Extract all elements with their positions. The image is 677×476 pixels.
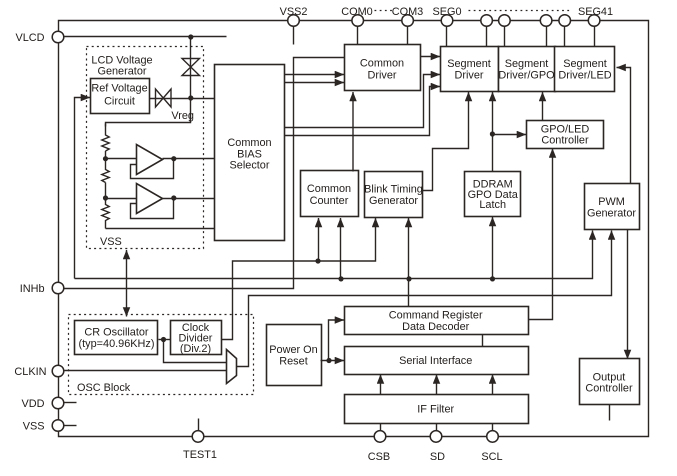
svg-text:Generator: Generator (587, 208, 636, 220)
junction VLCD/regulator (188, 34, 193, 39)
wire Output Controller stub (609, 405, 611, 421)
svg-text:Common: Common (227, 137, 271, 149)
svg-text:Driver: Driver (454, 69, 483, 81)
svg-text:SD: SD (430, 451, 445, 463)
pin CLKIN (52, 365, 64, 377)
LCD Voltage Generator dotted box (87, 47, 204, 249)
junction bus to Blink Timing (406, 276, 411, 281)
svg-text:Serial Interface: Serial Interface (399, 355, 472, 367)
leader dots COM0-COM3 (375, 10, 393, 12)
junction tap1 (103, 156, 108, 161)
junction Vreg node (188, 95, 193, 100)
junction bus to Common Counter (338, 276, 343, 281)
wire DDRAM latch up to Segment Driver (492, 92, 494, 172)
mux selector (227, 350, 237, 384)
svg-text:SCL: SCL (481, 451, 502, 463)
svg-text:OSC Block: OSC Block (77, 382, 131, 394)
block GPO/LED Controller (527, 121, 604, 149)
resistor R1 (102, 124, 109, 152)
resistor R3 (102, 183, 109, 229)
svg-text:IF Filter: IF Filter (417, 404, 454, 416)
svg-text:Reset: Reset (279, 355, 307, 367)
block Ref Voltage Circuit (91, 79, 150, 114)
block Clock Divider (171, 321, 222, 355)
wire ref voltage output (149, 98, 191, 100)
pin VLCD (52, 31, 64, 43)
wire Vreg to BIAS selector (191, 98, 215, 100)
pin SCL (487, 431, 499, 443)
svg-text:Counter: Counter (310, 195, 349, 207)
pin COM3 (402, 15, 414, 27)
svg-text:COM0: COM0 (341, 6, 372, 18)
junction POR branch (326, 358, 331, 363)
pin VSS (52, 420, 64, 432)
svg-text:Command Register: Command Register (389, 310, 483, 322)
wire CLKIN to mux (65, 370, 227, 372)
junction clock to Common Counter (315, 258, 320, 263)
leader dots SEG0-SEG41 (469, 10, 573, 12)
block Segment Driver (441, 47, 499, 92)
wire BIAS to Common Driver 2 (285, 82, 345, 84)
svg-text:TEST1: TEST1 (183, 449, 217, 461)
wire A1 feedback (131, 159, 174, 179)
svg-text:Circuit: Circuit (104, 96, 135, 108)
pin SEG (499, 15, 511, 27)
svg-text:SEG0: SEG0 (432, 6, 461, 18)
wire Blink Timing to Segment Driver (423, 92, 469, 191)
block DDRAM GPO Data Latch (465, 172, 521, 217)
block Power On Reset (267, 325, 322, 386)
wire VSS2 stub (293, 27, 295, 45)
block Common Counter (301, 171, 359, 217)
wire tap2 to A2 input (106, 198, 137, 200)
svg-text:Ref Voltage: Ref Voltage (91, 83, 147, 95)
wire A2 feedback (131, 199, 174, 219)
junction A1 output (171, 156, 176, 161)
wire INHb net (65, 58, 345, 289)
block CR Oscillator (75, 321, 158, 355)
junction bus to DDRAM latch (490, 276, 495, 281)
block Common Driver (345, 45, 421, 91)
svg-text:SEG41: SEG41 (578, 6, 613, 18)
wire PWM to Output Controller (627, 230, 629, 360)
pin COM0 (352, 15, 364, 27)
resistor R2 (102, 151, 109, 183)
svg-text:CR Oscillator: CR Oscillator (84, 327, 149, 339)
svg-text:COM3: COM3 (392, 6, 423, 18)
wire tap1 to A1 input (106, 158, 137, 160)
pin SEG (481, 15, 493, 27)
wire oscillator direct to mux (164, 340, 227, 363)
wire PWM to Segment Driver/LED (617, 68, 631, 184)
wire IF Filter to Serial Interface 1 (380, 375, 382, 395)
svg-text:Controller: Controller (585, 383, 633, 395)
svg-text:VSS: VSS (100, 236, 122, 248)
svg-text:VSS2: VSS2 (280, 6, 308, 18)
svg-text:Common: Common (360, 58, 404, 70)
block Command Register Data Decoder (345, 307, 529, 335)
svg-text:Driver: Driver (367, 69, 396, 81)
pin SEG (559, 15, 571, 27)
wire SEG stub 2 (486, 27, 488, 47)
op-amp A1 (137, 145, 163, 175)
svg-text:Segment: Segment (563, 58, 607, 70)
svg-text:Latch: Latch (479, 199, 506, 211)
wire VSS stub (64, 425, 77, 427)
wire SCL to IF Filter (492, 424, 494, 432)
valve V2 (horizontal bowtie) (156, 89, 172, 107)
wire regulator vertical upper (190, 37, 192, 99)
junction DDRAM/GPO branch (490, 131, 495, 136)
wire BIAS to Segment Driver 1 (285, 75, 441, 128)
svg-text:Driver/GPO: Driver/GPO (498, 69, 554, 81)
wire TEST1 stub (198, 419, 200, 431)
wire bus branch to DDRAM latch (492, 217, 494, 279)
wire IF Filter to Serial Interface 2 (436, 375, 438, 395)
block Blink Timing Generator (365, 172, 423, 218)
block IF Filter (345, 395, 529, 424)
wire clock branch to Common Counter (318, 218, 320, 261)
wire Command Register to GPO/LED Controller (528, 149, 553, 320)
pin VSS2 (288, 15, 300, 27)
outer frame (59, 21, 649, 437)
pin CSB (374, 431, 386, 443)
junction A2 output (171, 195, 176, 200)
wire BIAS to Common Driver 1 (285, 74, 345, 76)
svg-text:Blink Timing: Blink Timing (364, 184, 423, 196)
svg-text:VSS: VSS (23, 421, 45, 433)
wire bus branch to Common Counter (340, 218, 342, 279)
pin INHb (52, 282, 64, 294)
wire SEG41 stub (594, 27, 596, 47)
wire feedback into Ref Voltage Circuit (75, 98, 91, 279)
wire CR Oscillator to Clock Divider (159, 339, 171, 341)
pin SEG0 (441, 15, 453, 27)
wire IF Filter to Serial Interface 3 (492, 375, 494, 395)
pin SEG (540, 15, 552, 27)
junction tap2 (103, 195, 108, 200)
block Segment Driver/GPO (499, 47, 556, 92)
svg-text:Selector: Selector (230, 160, 270, 172)
wire VLCD rail (65, 36, 227, 38)
svg-text:(Div.2): (Div.2) (180, 343, 211, 355)
wire control bus (75, 231, 593, 279)
wire clock line from Clock Divider (222, 218, 376, 340)
svg-text:Common: Common (307, 183, 351, 195)
wire COM3 stub (407, 27, 409, 45)
wire BIAS to Segment Driver 2 (285, 87, 441, 136)
svg-text:Output: Output (593, 371, 626, 383)
svg-text:Power On: Power On (269, 344, 317, 356)
regulator valve V1 (vertical bowtie) (182, 59, 200, 76)
wire SD to IF Filter (436, 424, 438, 432)
block Serial Interface (345, 347, 529, 375)
block PWM Generator (585, 184, 640, 230)
wire branch to GPO/LED Controller (493, 134, 527, 136)
double arrow generator/OSC (126, 250, 128, 317)
wire SEG stub 3 (504, 27, 506, 47)
svg-text:Controller: Controller (541, 135, 589, 147)
wire Common Driver to Segment Driver (421, 56, 441, 58)
wire POR to Command Register (329, 320, 345, 361)
svg-text:INHb: INHb (20, 283, 45, 295)
svg-text:Generator: Generator (97, 66, 146, 78)
pin SEG41 (588, 15, 600, 27)
wire VSS rail to BIAS selector (106, 228, 215, 230)
wire POR to Serial Interface (321, 360, 345, 362)
wire SEG stub 4 (546, 27, 548, 47)
wire CSB to IF Filter (380, 424, 382, 432)
svg-text:PWM: PWM (598, 196, 625, 208)
wire Serial Interface to Command Register (482, 335, 484, 347)
wire SEG0 stub (446, 27, 448, 47)
svg-text:GPO/LED: GPO/LED (541, 123, 590, 135)
svg-text:VDD: VDD (22, 398, 45, 410)
pin TEST1 (192, 431, 204, 443)
wire SEG stub 5 (564, 27, 566, 47)
svg-text:VLCD: VLCD (15, 32, 44, 44)
svg-text:Segment: Segment (447, 58, 491, 70)
wire Vreg down to resistor chain (106, 99, 191, 127)
svg-text:Data Decoder: Data Decoder (402, 321, 470, 333)
pin VDD (52, 397, 64, 409)
wire GPO/LED Controller to Segment Driver/GPO (542, 92, 544, 121)
pin SD (430, 431, 442, 443)
svg-text:BIAS: BIAS (237, 148, 262, 160)
wire Common Counter to Common Driver (352, 92, 354, 172)
junction oscillator output (161, 337, 166, 342)
wire A1 output (163, 158, 215, 160)
svg-text:(typ=40.96KHz): (typ=40.96KHz) (79, 338, 155, 350)
block Common BIAS Selector (215, 65, 285, 241)
wire mux clock to PWM (237, 231, 612, 367)
op-amp A2 (137, 184, 163, 214)
svg-text:CLKIN: CLKIN (14, 366, 46, 378)
wire A2 output (163, 198, 215, 200)
block Segment Driver/LED (555, 47, 615, 92)
wire VDD stub (64, 402, 77, 404)
wire COM0 stub (357, 27, 359, 45)
block Output Controller (580, 359, 640, 405)
svg-text:Generator: Generator (369, 195, 418, 207)
svg-text:CSB: CSB (368, 451, 390, 463)
OSC Block dotted box (69, 315, 254, 395)
svg-text:Driver/LED: Driver/LED (558, 69, 611, 81)
wire bus riser from Command Register to Blink Timing (408, 218, 410, 307)
svg-text:Segment: Segment (505, 58, 549, 70)
